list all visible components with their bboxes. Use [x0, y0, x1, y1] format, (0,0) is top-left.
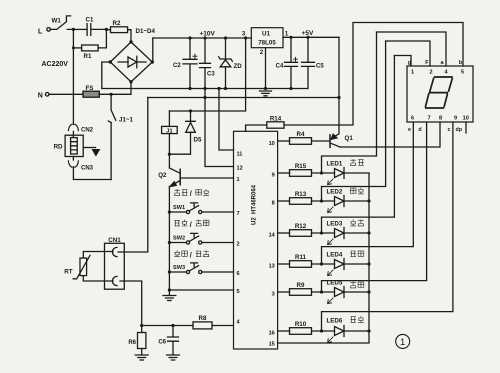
- resistor R8: [193, 322, 212, 329]
- resistor R4: [278, 140, 290, 142]
- svg-text:b: b: [459, 60, 463, 66]
- svg-text:6: 6: [411, 116, 414, 122]
- diode D5: [189, 109, 192, 112]
- U2 pin12 wire: [205, 89, 234, 167]
- svg-text:CN3: CN3: [81, 166, 94, 172]
- svg-text:+10V: +10V: [200, 30, 216, 37]
- svg-text:9: 9: [454, 116, 457, 122]
- LED6 jog to 7seg pin10: [322, 122, 453, 331]
- svg-text:3: 3: [272, 292, 275, 298]
- svg-text:C4: C4: [276, 64, 284, 70]
- label LED2 定时: [350, 188, 356, 193]
- wire N to FS: [49, 93, 83, 95]
- svg-text:1: 1: [400, 337, 405, 348]
- svg-text:C3: C3: [207, 72, 215, 78]
- wire bridge right corner to +10V rail: [151, 38, 154, 62]
- transistor Q2: [169, 154, 179, 173]
- svg-text:Q1: Q1: [345, 135, 354, 142]
- svg-text:9: 9: [272, 173, 275, 179]
- connector CN2: [68, 124, 78, 130]
- svg-text:78L05: 78L05: [258, 40, 276, 47]
- svg-text:/: /: [190, 189, 192, 198]
- svg-text:R11: R11: [295, 254, 307, 261]
- svg-text:ZD: ZD: [234, 63, 243, 70]
- svg-text:RD: RD: [54, 144, 63, 151]
- +5V line down to CN1: [118, 98, 148, 253]
- svg-text:R4: R4: [297, 131, 305, 138]
- resistor R2: [106, 29, 110, 31]
- SECTION2: [246, 23, 466, 148]
- U2 pin5 wire: [168, 288, 171, 291]
- svg-text:5: 5: [237, 289, 240, 295]
- svg-text:C6: C6: [158, 340, 166, 346]
- svg-text:LED2: LED2: [327, 188, 343, 195]
- switch SW3: [168, 270, 171, 273]
- +5V down line to rail2 and Q1: [338, 37, 340, 97]
- svg-text:SW1: SW1: [173, 205, 185, 211]
- svg-text:+5V: +5V: [302, 30, 314, 37]
- relay coil J1: [168, 111, 170, 126]
- svg-text:6: 6: [237, 271, 240, 277]
- LED common cathode line to pin15: [278, 173, 369, 343]
- svg-text:7: 7: [237, 211, 240, 217]
- svg-text:L: L: [38, 29, 43, 36]
- U1 pin2 to ground: [265, 48, 267, 89]
- circled number 1: [396, 334, 410, 348]
- thermal arrow on RD: [83, 147, 95, 149]
- terminal L: [47, 28, 51, 32]
- svg-text:2: 2: [429, 70, 432, 76]
- svg-text:/: /: [190, 251, 192, 260]
- svg-text:R9: R9: [297, 282, 305, 289]
- svg-text:CN1: CN1: [108, 237, 121, 244]
- label SW1 text 预约/定时: [174, 189, 180, 195]
- svg-text:R1: R1: [84, 53, 92, 60]
- Q1 collector line to 7seg pin8: [340, 122, 440, 147]
- junction L node: [72, 28, 75, 31]
- svg-text:N: N: [38, 93, 43, 100]
- resistor R15: [278, 172, 290, 174]
- switch SW1: [168, 210, 171, 213]
- svg-text:J1~1: J1~1: [119, 117, 133, 124]
- label SW3 text 关机/取消: [174, 250, 180, 256]
- svg-text:C2: C2: [173, 63, 181, 69]
- svg-text:LED6: LED6: [327, 317, 343, 324]
- svg-text:dp: dp: [456, 127, 463, 133]
- svg-text:10: 10: [463, 116, 469, 122]
- LED3 jog to 7seg pin6: [322, 56, 395, 234]
- capacitor C4 (electrolytic): [285, 37, 298, 88]
- digit glyph: [426, 77, 453, 108]
- svg-text:LED3: LED3: [327, 220, 343, 227]
- svg-text:8: 8: [272, 201, 275, 207]
- svg-text:C1: C1: [86, 17, 94, 24]
- svg-text:e: e: [408, 127, 411, 133]
- wire L to C1: [73, 28, 87, 30]
- LED6: [320, 329, 323, 332]
- svg-text:4: 4: [237, 320, 241, 326]
- resistor R9: [278, 291, 290, 293]
- wire segment F (top): [386, 41, 430, 66]
- svg-text:CN2: CN2: [81, 128, 94, 134]
- node dots on rails: [188, 36, 191, 39]
- svg-text:FS: FS: [86, 85, 94, 92]
- svg-text:/: /: [190, 220, 192, 229]
- GND rail: [102, 88, 308, 90]
- IC U2 HT46R064: [234, 131, 278, 349]
- svg-text:R13: R13: [295, 191, 307, 198]
- +10V feed down to relay line: [169, 38, 245, 111]
- switch WT1: [50, 16, 72, 30]
- svg-text:1: 1: [285, 31, 289, 37]
- svg-text:1: 1: [237, 177, 240, 183]
- ground symbol under U1: [260, 91, 272, 96]
- svg-text:15: 15: [269, 342, 275, 348]
- switch SW2: [168, 241, 171, 244]
- +10V rail: [153, 37, 252, 39]
- 7-segment display U3: [407, 66, 473, 122]
- LED5: [320, 290, 323, 293]
- wire down to R1 tap: [72, 29, 74, 48]
- svg-text:W1: W1: [52, 17, 62, 24]
- svg-text:R12: R12: [295, 223, 307, 230]
- svg-text:8: 8: [439, 116, 442, 122]
- svg-text:g: g: [408, 60, 412, 66]
- wire bridge left corner to GND rail: [102, 62, 111, 89]
- svg-text:U1: U1: [262, 30, 270, 37]
- regulator U1 78L05: [251, 28, 283, 48]
- svg-text:R8: R8: [199, 315, 207, 322]
- thermistor RT: [80, 258, 87, 276]
- wire L line down to CN2: [72, 48, 74, 125]
- label LED4 快炖: [350, 251, 356, 257]
- connector CN3: [68, 161, 78, 167]
- LED2 jog to segment g: [322, 41, 386, 201]
- svg-text:2: 2: [237, 242, 240, 248]
- svg-text:RT: RT: [64, 269, 72, 276]
- svg-text:SW2: SW2: [173, 235, 185, 241]
- heater RD: [65, 135, 83, 156]
- U2 pin11 wire: [219, 89, 234, 151]
- LED4: [320, 262, 323, 265]
- svg-text:c: c: [448, 127, 451, 133]
- svg-text:F: F: [425, 60, 429, 66]
- label SW2 text 开始/功能: [174, 220, 180, 226]
- resistor R1: [73, 47, 81, 49]
- node line to R8: [142, 325, 193, 327]
- label LED6 保温: [350, 317, 356, 323]
- resistor R11: [278, 263, 290, 265]
- svg-text:a: a: [440, 60, 444, 66]
- svg-text:R10: R10: [295, 321, 307, 328]
- svg-text:J1: J1: [166, 128, 173, 134]
- LED5 jog to 7seg pin9: [322, 122, 427, 292]
- resistor R10: [278, 330, 290, 332]
- wire R2 to bridge top: [128, 30, 131, 42]
- CN1 bottom to divider node: [120, 281, 142, 326]
- connector CN1: [105, 243, 125, 289]
- svg-text:13: 13: [269, 264, 275, 270]
- svg-text:R2: R2: [113, 20, 121, 27]
- LED1: [320, 171, 323, 174]
- RT to CN1 wires: [83, 252, 113, 259]
- LED1 jog to segment a: [322, 32, 377, 173]
- zener diode ZD: [225, 38, 227, 59]
- svg-text:LED4: LED4: [327, 251, 343, 258]
- fuse FS: [83, 91, 99, 97]
- LED4 jog to 7seg pin7: [322, 122, 414, 264]
- SECTION3: [38, 17, 469, 349]
- svg-text:4: 4: [444, 70, 448, 76]
- ground below switches: [163, 296, 176, 301]
- terminal N: [45, 93, 49, 97]
- svg-text:11: 11: [237, 152, 243, 158]
- svg-text:1: 1: [411, 70, 414, 76]
- label LED1 预约: [350, 159, 356, 165]
- svg-text:7: 7: [427, 116, 430, 122]
- LED2: [320, 199, 323, 202]
- svg-text:D5: D5: [194, 137, 202, 144]
- junction N / J1-1: [110, 93, 113, 96]
- LED3: [320, 231, 323, 234]
- svg-text:R6: R6: [128, 340, 136, 346]
- node after C1: [105, 28, 108, 31]
- resistor R6: [141, 326, 143, 333]
- svg-text:Q2: Q2: [158, 172, 167, 179]
- capacitor C3: [200, 38, 211, 89]
- svg-text:R14: R14: [270, 115, 282, 122]
- resistor R14: [246, 125, 267, 131]
- svg-text:d: d: [418, 127, 421, 133]
- +5V distribution rail2: [148, 97, 339, 99]
- svg-text:14: 14: [269, 233, 276, 239]
- +5V rail from U1 pin1: [283, 36, 339, 38]
- ground below C6: [167, 355, 180, 360]
- wire segment g (top): [394, 56, 411, 67]
- svg-text:U2 HT46R064: U2 HT46R064: [252, 184, 258, 225]
- capacitor C6: [168, 326, 179, 355]
- bridge rectifier D1~D4: [110, 42, 152, 82]
- svg-text:C5: C5: [316, 64, 324, 70]
- svg-text:SW3: SW3: [173, 265, 185, 271]
- svg-text:R15: R15: [295, 163, 307, 170]
- svg-text:AC220V: AC220V: [42, 61, 69, 68]
- wire segment a (top): [377, 32, 447, 66]
- svg-text:16: 16: [269, 331, 275, 337]
- svg-text:10: 10: [269, 141, 275, 147]
- wire FS to bridge bottom: [99, 83, 131, 94]
- svg-text:LED5: LED5: [327, 279, 343, 286]
- wire CN3 to J1-1: [73, 167, 111, 180]
- svg-text:5: 5: [461, 70, 464, 76]
- relay contact J1-1: [108, 94, 116, 179]
- label LED3 煮粥: [350, 220, 356, 226]
- capacitor C2 (electrolytic): [183, 38, 197, 89]
- ground below R6: [135, 355, 148, 360]
- svg-text:12: 12: [237, 166, 243, 172]
- capacitor C1: [87, 24, 106, 36]
- resistor R12: [278, 232, 290, 234]
- svg-text:2: 2: [260, 50, 264, 56]
- wire R14 to segment b: [284, 23, 463, 126]
- label LED5 慢炖: [350, 282, 356, 288]
- capacitor C5: [302, 37, 315, 88]
- svg-text:D1~D4: D1~D4: [136, 28, 156, 35]
- resistor R13: [278, 200, 290, 202]
- svg-text:LED1: LED1: [327, 160, 343, 167]
- transistor Q1: [329, 135, 331, 148]
